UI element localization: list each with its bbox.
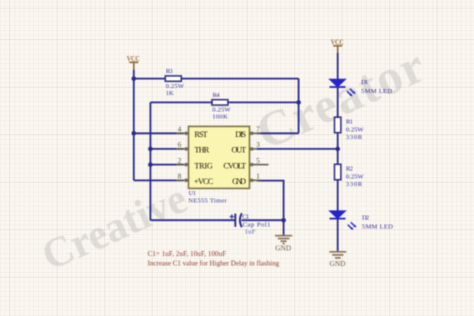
svg-text:6: 6	[178, 141, 182, 149]
wire vertical THR/TRIG net	[149, 102, 151, 220]
R3 labels	[166, 68, 185, 97]
svg-text:1uF: 1uF	[245, 229, 256, 236]
wire R4 right	[228, 101, 299, 103]
U1 pin stubs right	[250, 133, 269, 180]
power port VCC (left)	[129, 62, 138, 71]
diode D1 LED	[330, 79, 356, 96]
svg-text:R2: R2	[346, 165, 353, 172]
resistor R2	[335, 164, 341, 180]
node junction C1/GND	[281, 218, 286, 223]
svg-text:330R: 330R	[346, 181, 363, 188]
wire OUT row	[257, 148, 338, 150]
wire R1 to junction	[337, 133, 339, 165]
wire R3 left	[134, 78, 166, 80]
svg-text:1K: 1K	[166, 90, 174, 97]
power port VCC (right)	[333, 46, 342, 54]
R4 labels	[212, 92, 231, 121]
svg-text:8: 8	[178, 173, 182, 181]
ground (right)	[329, 252, 346, 258]
wire down to ground	[283, 220, 285, 235]
svg-text:Cap Pol1: Cap Pol1	[243, 221, 271, 228]
U1 pin names	[194, 130, 247, 186]
wire R3 right to corner	[181, 78, 299, 80]
resistor R3	[165, 76, 181, 81]
svg-text:7: 7	[256, 126, 260, 134]
svg-text:330R: 330R	[346, 134, 363, 141]
resistor R4	[212, 100, 228, 105]
svg-text:R4: R4	[213, 92, 221, 99]
svg-text:CVOLT: CVOLT	[223, 161, 246, 170]
wire VCC to D1	[337, 53, 339, 79]
svg-text:5: 5	[256, 157, 260, 165]
U1 pin hotspot circles	[185, 132, 253, 182]
svg-text:NE555 Timer: NE555 Timer	[188, 198, 227, 205]
wire +VCC pin8 row	[134, 179, 184, 181]
wire D2 to ground	[337, 219, 339, 252]
wire R4 left	[150, 101, 212, 103]
node junction TRIG	[148, 162, 153, 167]
svg-text:U1: U1	[188, 190, 196, 197]
wire VCC vertical left	[133, 70, 135, 180]
U1 pin stubs left	[176, 133, 189, 180]
U1 pin numbers	[178, 126, 261, 181]
svg-text:1: 1	[256, 173, 260, 181]
node junction VCC/R3	[132, 76, 137, 81]
svg-text:0.25W: 0.25W	[346, 173, 364, 180]
C1 labels	[242, 213, 270, 235]
svg-text:C1= 1uF, 2uF, 10uF, 100uF: C1= 1uF, 2uF, 10uF, 100uF	[148, 250, 227, 258]
svg-text:5MM LED: 5MM LED	[362, 223, 393, 230]
svg-text:D1: D1	[361, 79, 368, 86]
wire C1 right	[242, 219, 284, 221]
U1 designator labels	[188, 190, 227, 205]
svg-text:OUT: OUT	[232, 146, 247, 155]
svg-text:TRIG: TRIG	[194, 161, 212, 170]
watermark	[35, 36, 434, 280]
node junction VCC/RST	[132, 131, 137, 136]
node junction R4/DIS net	[296, 100, 301, 105]
svg-text:Creator: Creator	[248, 36, 434, 160]
wire RST row	[134, 132, 184, 134]
svg-text:VCC: VCC	[331, 38, 344, 46]
svg-text:GND: GND	[232, 177, 246, 186]
note text	[148, 250, 280, 268]
wire DIS pin7 row	[257, 132, 299, 134]
svg-text:2: 2	[178, 157, 182, 165]
svg-text:GND: GND	[275, 243, 291, 252]
node junction OUT/R1/R2	[335, 147, 340, 152]
R2 labels	[346, 165, 364, 188]
wire THR row	[150, 148, 183, 150]
svg-text:0.25W: 0.25W	[346, 126, 364, 133]
svg-text:5MM LED: 5MM LED	[361, 88, 392, 95]
wire C1 left	[150, 219, 234, 221]
svg-text:VCC: VCC	[127, 55, 140, 63]
svg-text:D2: D2	[362, 214, 369, 221]
svg-text:THR: THR	[194, 146, 209, 155]
svg-text:100K: 100K	[212, 114, 228, 121]
ground (chip)	[275, 236, 292, 244]
svg-text:RST: RST	[194, 130, 207, 139]
svg-text:Increase C1 value for Higher D: Increase C1 value for Higher Delay in fl…	[148, 260, 280, 268]
svg-text:DIS: DIS	[235, 130, 246, 139]
C1 plus sign	[230, 214, 234, 218]
wire R2 to D2	[337, 180, 339, 211]
svg-text:GND: GND	[330, 259, 346, 268]
IC U1 NE555 body	[189, 126, 250, 188]
D1 labels	[361, 79, 392, 95]
wire D1 to R1	[337, 87, 339, 117]
svg-text:R1: R1	[346, 118, 353, 125]
svg-text:4: 4	[178, 126, 182, 134]
svg-text:R3: R3	[166, 68, 174, 75]
wire TRIG row	[150, 164, 183, 166]
resistor R1	[335, 117, 341, 133]
svg-text:0.25W: 0.25W	[212, 106, 231, 113]
node junction THR	[148, 147, 153, 152]
R1 labels	[346, 118, 364, 141]
wire vertical down to DIS	[298, 79, 300, 134]
wire GND pin1 row	[257, 181, 284, 221]
D2 labels	[362, 214, 393, 230]
diode D2 LED	[330, 211, 357, 230]
svg-text:+VCC: +VCC	[194, 177, 214, 186]
capacitor C1	[235, 213, 242, 227]
